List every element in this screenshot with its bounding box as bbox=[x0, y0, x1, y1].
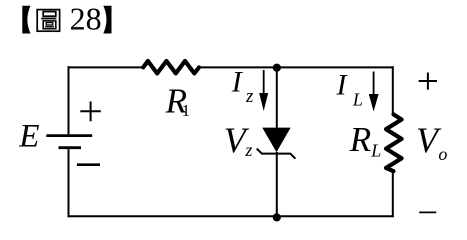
battery minus sign bbox=[77, 163, 100, 166]
svg-text:L: L bbox=[370, 141, 381, 161]
svg-text:1: 1 bbox=[182, 101, 191, 120]
svg-text:z: z bbox=[245, 86, 254, 107]
node top junction bbox=[273, 64, 281, 72]
svg-text:z: z bbox=[244, 140, 252, 160]
title character 圖 bbox=[37, 10, 59, 32]
wire left lower bbox=[68, 149, 70, 217]
zener diode Vz bbox=[262, 128, 290, 153]
wire middle lower bbox=[276, 152, 278, 217]
svg-text:28: 28 bbox=[70, 0, 102, 36]
wire right upper bbox=[392, 66, 394, 113]
battery E bottom plate bbox=[59, 146, 82, 149]
battery E top plate bbox=[46, 134, 92, 137]
svg-text:I: I bbox=[231, 65, 244, 98]
current arrow IL bbox=[373, 72, 375, 97]
svg-text:o: o bbox=[438, 144, 447, 164]
title bracket 】 bbox=[103, 6, 111, 34]
wire bottom bbox=[68, 215, 394, 217]
svg-text:E: E bbox=[18, 119, 39, 155]
wire right lower bbox=[392, 172, 394, 217]
resistor R1 bbox=[143, 61, 199, 73]
node bottom junction bbox=[273, 213, 281, 221]
svg-text:L: L bbox=[352, 90, 363, 110]
resistor RL bbox=[386, 114, 402, 171]
output minus sign bbox=[419, 211, 436, 213]
wire left upper bbox=[68, 66, 70, 134]
svg-text:R: R bbox=[349, 120, 371, 159]
svg-text:I: I bbox=[336, 68, 349, 101]
battery plus sign bbox=[80, 102, 101, 122]
wire top bbox=[69, 67, 393, 68]
output plus sign bbox=[419, 73, 437, 90]
current arrow Iz bbox=[263, 70, 265, 95]
wire middle upper bbox=[276, 67, 278, 128]
title bracket 【 bbox=[22, 6, 30, 34]
